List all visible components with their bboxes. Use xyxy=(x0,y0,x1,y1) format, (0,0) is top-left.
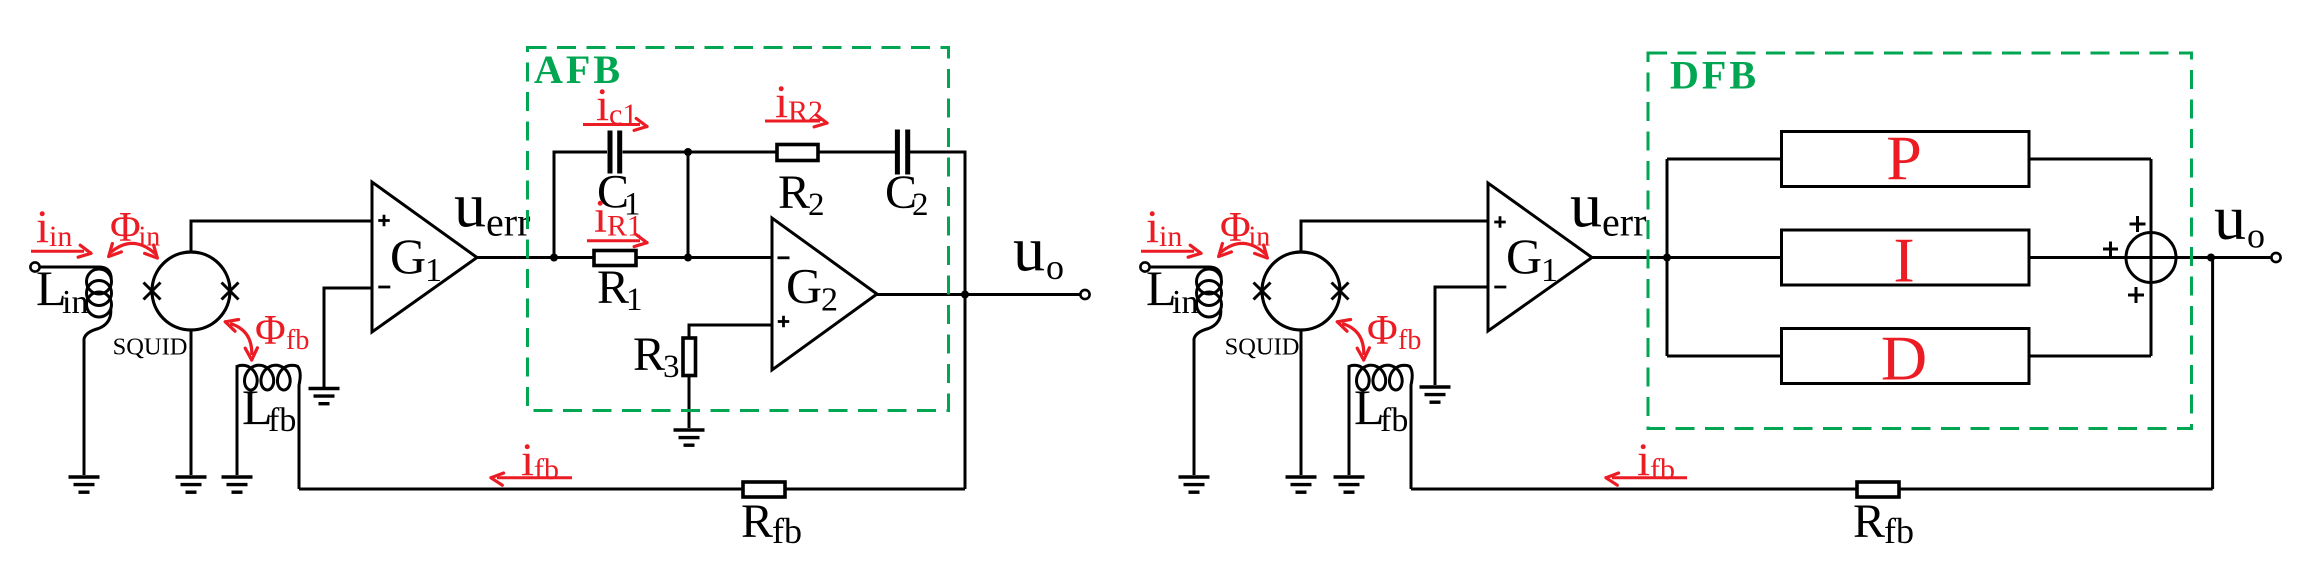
svg-text:in: in xyxy=(49,220,72,253)
svg-text:i: i xyxy=(594,191,607,243)
svg-text:DFB: DFB xyxy=(1670,53,1759,98)
svg-text:R: R xyxy=(1853,495,1885,548)
svg-text:in: in xyxy=(1159,220,1182,253)
wire SQUID top to G1 + input xyxy=(191,221,372,252)
node dot R1 right xyxy=(684,254,692,262)
svg-text:Φ: Φ xyxy=(255,308,286,354)
feedback wire bottom (right circuit) xyxy=(1411,488,2213,491)
svg-text:i: i xyxy=(36,201,49,253)
svg-text:u: u xyxy=(454,170,486,241)
svg-text:u: u xyxy=(2214,182,2246,253)
wire to output terminal (right) xyxy=(2211,256,2272,259)
ground (SQUID right) xyxy=(1286,475,1317,478)
svg-text:err: err xyxy=(1602,200,1646,245)
wire G2 + input to R3 xyxy=(689,325,772,338)
svg-text:u: u xyxy=(1013,214,1045,285)
ground (L_in right) xyxy=(1179,475,1210,478)
wire G1 - input to ground (right) xyxy=(1435,287,1488,385)
svg-text:SQUID: SQUID xyxy=(1225,334,1300,361)
capacitor C2 xyxy=(895,130,900,175)
wire I output through summer xyxy=(2029,256,2210,259)
wire to D block xyxy=(1667,355,1781,358)
resistor R_fb (right) xyxy=(1857,482,1899,497)
op-amp G1 (right) xyxy=(1488,183,1592,331)
op-amp G1 xyxy=(372,182,477,332)
svg-text:D: D xyxy=(1881,323,1927,394)
SQUID symbol xyxy=(152,252,230,330)
resistor R1 xyxy=(594,251,636,266)
svg-text:P: P xyxy=(1886,123,1922,194)
inductor L_fb xyxy=(237,365,300,489)
node dot G2 output xyxy=(961,291,969,299)
inductor L_in xyxy=(40,267,112,279)
Phi_in coupling arrow xyxy=(111,243,156,254)
svg-text:2: 2 xyxy=(821,282,838,319)
svg-text:I: I xyxy=(1893,225,1914,296)
svg-text:fb: fb xyxy=(286,325,309,356)
svg-text:G: G xyxy=(1506,228,1542,284)
D block xyxy=(1782,329,2030,384)
wire P output xyxy=(2029,158,2151,161)
ground (SQUID) xyxy=(176,475,207,478)
wire D output xyxy=(2029,355,2151,358)
node dot u_err (right) xyxy=(1663,254,1671,262)
wire C1 to R2 xyxy=(623,151,778,154)
svg-text:2: 2 xyxy=(808,187,825,223)
svg-text:R: R xyxy=(633,328,665,381)
svg-text:fb: fb xyxy=(534,453,559,486)
input terminal (right circuit) xyxy=(1140,262,1149,271)
svg-text:u: u xyxy=(1570,170,1602,241)
svg-text:fb: fb xyxy=(1398,325,1421,356)
svg-text:2: 2 xyxy=(912,187,929,223)
svg-text:Φ: Φ xyxy=(1367,308,1398,354)
svg-text:fb: fb xyxy=(1380,402,1408,439)
svg-text:in: in xyxy=(62,284,88,321)
svg-text:1: 1 xyxy=(1541,252,1558,289)
feedback wire bottom (left circuit) xyxy=(299,488,965,491)
output terminal u_o (left) xyxy=(1080,290,1089,299)
svg-text:1: 1 xyxy=(626,282,643,318)
ground (R3) xyxy=(674,428,705,431)
capacitor C1 xyxy=(608,131,613,174)
wire R3 to ground xyxy=(688,376,691,429)
wire SQUID top to G1 + input (right) xyxy=(1301,221,1488,252)
svg-text:o: o xyxy=(1046,247,1064,287)
summer + signs xyxy=(2103,248,2118,251)
wire G1 output / u_err node xyxy=(477,256,772,259)
wire output down to feedback xyxy=(964,295,967,490)
svg-text:AFB: AFB xyxy=(534,47,623,92)
resistor R2 xyxy=(777,145,818,161)
wire G2 output to u_o terminal xyxy=(877,293,1081,296)
left rail P/I/D xyxy=(1666,159,1669,356)
wire to P block xyxy=(1667,158,1781,161)
svg-text:fb: fb xyxy=(1650,453,1675,486)
svg-text:SQUID: SQUID xyxy=(113,334,188,361)
ground (L_fb right) xyxy=(1334,475,1365,478)
output terminal u_o (right) xyxy=(2271,253,2280,262)
inductor L_in (right) xyxy=(1150,267,1222,279)
wire R2 to C2 xyxy=(818,151,895,154)
wire junction down xyxy=(687,152,690,258)
svg-text:fb: fb xyxy=(772,511,802,551)
node dot u_o (right) xyxy=(2207,254,2215,262)
ground (L_in) xyxy=(69,475,100,478)
summing junction xyxy=(2126,233,2176,283)
Phi_fb coupling arrow (right) xyxy=(1342,324,1364,356)
SQUID symbol (right) xyxy=(1262,252,1340,330)
svg-text:R: R xyxy=(741,495,773,548)
svg-text:R: R xyxy=(778,166,810,219)
svg-text:G: G xyxy=(786,258,822,314)
wire SQUID bottom to ground (right) xyxy=(1300,330,1303,475)
svg-text:c1: c1 xyxy=(609,98,637,131)
wire SQUID bottom to ground xyxy=(190,330,193,475)
right rail into summer xyxy=(2150,159,2153,356)
DFB dashed box xyxy=(1648,53,2192,429)
op-amp G2 xyxy=(772,218,877,370)
svg-text:i: i xyxy=(1146,201,1159,253)
wire branch up to C1 xyxy=(554,152,607,258)
resistor R_fb (left) xyxy=(743,482,785,497)
svg-text:in: in xyxy=(1172,284,1198,321)
svg-text:R1: R1 xyxy=(607,210,642,243)
svg-text:err: err xyxy=(486,200,530,245)
node dot top wire xyxy=(684,148,692,156)
AFB dashed box xyxy=(528,48,949,411)
node dot u_err branch xyxy=(550,254,558,262)
wire G1 output to PID rails xyxy=(1592,256,2028,259)
svg-text:fb: fb xyxy=(268,402,296,439)
ground (G1 minus) xyxy=(309,387,340,390)
Phi_fb coupling arrow xyxy=(230,324,252,356)
wire C2 to output rail xyxy=(910,152,965,295)
svg-text:fb: fb xyxy=(1884,511,1914,551)
wire G1 - input to ground xyxy=(324,288,372,388)
svg-text:o: o xyxy=(2247,216,2265,256)
I block xyxy=(1782,230,2030,285)
Phi_in coupling arrow (right) xyxy=(1221,243,1266,254)
svg-text:3: 3 xyxy=(663,349,680,385)
resistor R3 xyxy=(683,338,696,376)
ground (G1 minus right) xyxy=(1420,385,1451,388)
svg-text:G: G xyxy=(390,228,426,284)
wire output down to feedback (right) xyxy=(2211,258,2214,490)
P block xyxy=(1782,132,2030,187)
ground (L_fb) xyxy=(222,475,253,478)
svg-text:R2: R2 xyxy=(788,95,823,128)
svg-text:R: R xyxy=(597,261,629,314)
input terminal (left circuit) xyxy=(30,262,39,271)
svg-text:1: 1 xyxy=(425,252,442,289)
inductor L_fb (right) xyxy=(1349,365,1412,489)
